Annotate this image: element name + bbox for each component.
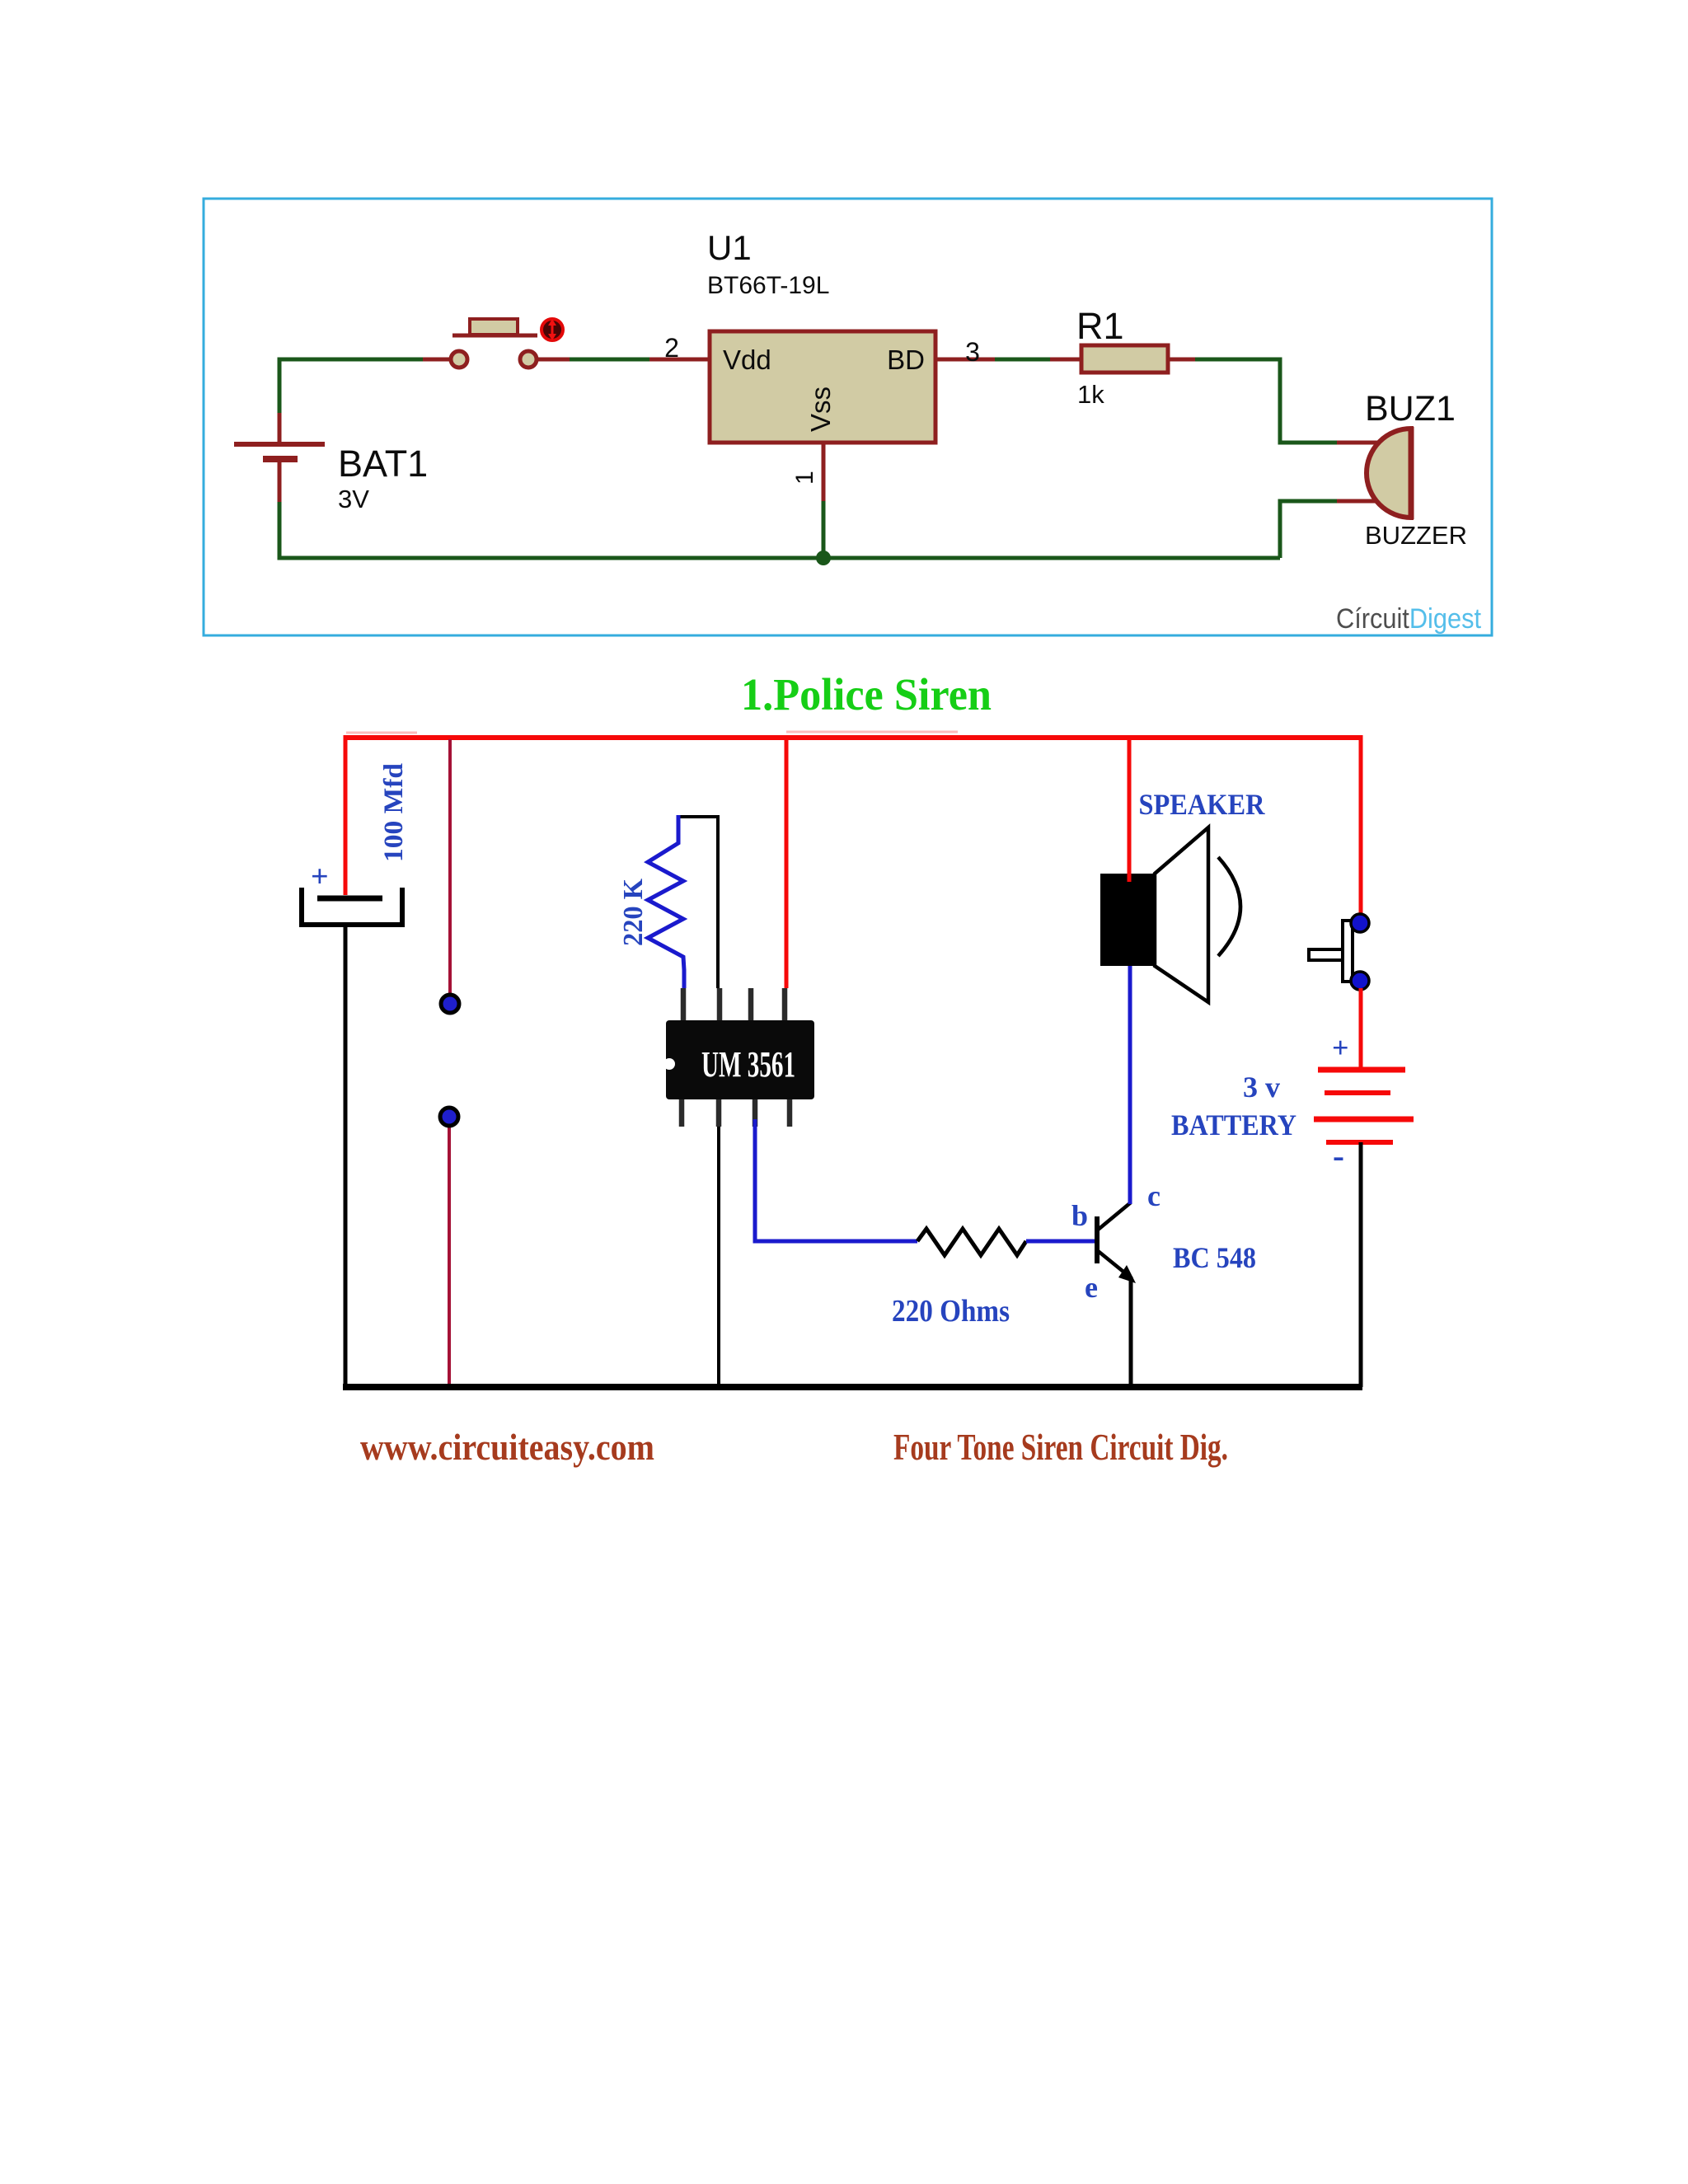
wire UM3561 to ground rail: [717, 1127, 720, 1387]
svg-text:220 Ohms: 220 Ohms: [892, 1294, 1010, 1329]
wire rail to UM3561 power pin: [785, 735, 789, 988]
buzzer BUZ1: [1365, 389, 1467, 550]
push button switch: [451, 319, 563, 368]
svg-text:U1: U1: [707, 228, 752, 267]
wire R1 to buzzer positive: [1168, 359, 1380, 443]
speaker: [1100, 827, 1240, 1002]
svg-text:100 Mfd: 100 Mfd: [379, 763, 409, 862]
resistor 220 K: [648, 815, 684, 988]
wire top power rail: [345, 732, 1361, 738]
push switch: [1309, 914, 1369, 990]
wire rail to capacitor positive: [344, 735, 348, 895]
capacitor 100 Mfd: [302, 888, 402, 925]
svg-text:1: 1: [791, 471, 818, 485]
svg-text:Vdd: Vdd: [723, 344, 771, 375]
wire battery negative to ground rail: [1359, 1142, 1363, 1387]
svg-text:3V: 3V: [338, 485, 369, 513]
wire emitter to ground rail: [1129, 1277, 1133, 1387]
svg-text:+: +: [311, 860, 329, 894]
svg-text:1k: 1k: [1077, 380, 1104, 409]
svg-text:BAT1: BAT1: [338, 443, 428, 485]
junction node: [816, 551, 831, 565]
svg-text:e: e: [1085, 1271, 1098, 1304]
svg-text:CírcuitDigest: CírcuitDigest: [1336, 603, 1481, 635]
wire collector to speaker: [1128, 964, 1132, 1204]
wire push button to U1 pin 2: [537, 358, 710, 362]
transistor BC548: [1097, 1202, 1136, 1283]
svg-text:R1: R1: [1076, 305, 1124, 347]
IC UM 3561: [663, 988, 814, 1127]
svg-text:1.Police Siren: 1.Police Siren: [741, 669, 992, 719]
svg-text:c: c: [1147, 1179, 1160, 1212]
svg-text:BD: BD: [887, 344, 925, 375]
svg-text:3 v: 3 v: [1243, 1071, 1280, 1104]
svg-text:Vss: Vss: [805, 387, 836, 432]
svg-text:2: 2: [664, 333, 679, 363]
resistor R1 1k: [1076, 305, 1168, 409]
wire 220 Ohms to transistor base: [1026, 1240, 1096, 1244]
wire U1 pin 1 to ground rail: [822, 443, 826, 558]
wire buzzer negative to rail: [1280, 501, 1380, 558]
wire crimson lower node to ground rail: [448, 1122, 451, 1385]
svg-text:SPEAKER: SPEAKER: [1139, 788, 1266, 821]
svg-text:UM 3561: UM 3561: [701, 1044, 795, 1085]
wire ground rail: [343, 1384, 1362, 1390]
svg-text:BT66T-19L: BT66T-19L: [707, 272, 829, 299]
resistor 220 Ohms: [917, 1229, 1026, 1255]
svg-text:www.circuiteasy.com: www.circuiteasy.com: [360, 1426, 654, 1468]
wire UM3561 output to 220 Ohms: [755, 1119, 917, 1241]
svg-text:-: -: [1333, 1137, 1344, 1175]
svg-text:Four Tone Siren Circuit Dig.: Four Tone Siren Circuit Dig.: [893, 1426, 1228, 1468]
wire rail to push switch: [1359, 735, 1363, 917]
wire battery positive to push button: [279, 359, 451, 444]
IC U1 BT66T-19L: [707, 228, 935, 443]
wire bottom return rail: [279, 462, 1280, 558]
svg-text:3: 3: [965, 337, 980, 367]
battery BAT1: [234, 443, 428, 513]
wire capacitor negative to ground rail: [344, 925, 348, 1387]
battery 3v: [1314, 1070, 1414, 1142]
node dot upper: [441, 995, 459, 1013]
wire U1 BD pin 3 to R1: [935, 358, 1081, 362]
wire rail to speaker: [1128, 735, 1132, 882]
svg-text:220 K: 220 K: [618, 878, 649, 946]
svg-text:BATTERY: BATTERY: [1171, 1108, 1296, 1141]
wire resistor 220K top loop to UM3561 pin: [678, 817, 718, 988]
svg-text:+: +: [1332, 1031, 1349, 1064]
wire crimson branch from rail to upper node: [448, 739, 452, 997]
wire switch to battery positive: [1359, 988, 1363, 1071]
svg-text:BUZZER: BUZZER: [1365, 521, 1467, 550]
svg-text:BC 548: BC 548: [1173, 1241, 1256, 1274]
svg-text:BUZ1: BUZ1: [1365, 389, 1456, 429]
node dot lower: [440, 1108, 458, 1126]
svg-text:b: b: [1071, 1199, 1088, 1232]
